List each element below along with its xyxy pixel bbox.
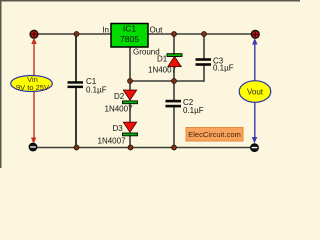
wire top rail right (IC Out to Vout+): [148, 33, 255, 35]
svg-text:D3: D3: [113, 124, 124, 133]
terminal - (bottom right): [251, 144, 259, 152]
svg-text:9V to 25V: 9V to 25V: [16, 83, 49, 92]
diode D3 (cathode down): [98, 122, 138, 145]
wire IC ground pin down to D2: [129, 47, 131, 91]
svg-text:7805: 7805: [120, 34, 139, 44]
wire C1 branch upper: [75, 34, 77, 82]
capacitor C2: [166, 98, 204, 115]
wire D1 to mid node: [173, 67, 175, 82]
wire mid node to C2: [173, 81, 175, 101]
diode D1 (cathode up): [148, 54, 182, 75]
wire C2 to bottom rail: [173, 107, 175, 148]
node C1 bottom: [74, 145, 79, 150]
watermark ElecCircuit.com: [186, 128, 243, 142]
svg-text:D2: D2: [114, 92, 125, 101]
svg-text:1N4007: 1N4007: [98, 137, 127, 146]
terminal + (top right): [251, 30, 259, 38]
Vout blue line with arrows: [252, 38, 258, 144]
terminal - (bottom left): [29, 143, 37, 151]
diode D2 (cathode down): [105, 90, 138, 114]
capacitor C3: [196, 57, 234, 73]
node D3 bottom: [128, 145, 133, 150]
wire D3 to bottom rail: [129, 136, 131, 148]
node C3 top: [202, 32, 207, 37]
svg-text:0.1µF: 0.1µF: [183, 106, 204, 115]
node C1 top: [74, 32, 79, 37]
node Vout label ellipse: [239, 81, 271, 103]
node C2 bottom: [172, 145, 177, 150]
terminal + (top left): [30, 30, 38, 38]
svg-text:0.1µF: 0.1µF: [86, 86, 107, 95]
node ground mid: [128, 79, 133, 84]
svg-text:Out: Out: [150, 26, 164, 35]
node D1 top: [172, 32, 177, 37]
svg-text:D1: D1: [157, 55, 168, 64]
svg-text:1N4007: 1N4007: [105, 105, 134, 114]
wire C3 top branch: [203, 34, 205, 59]
svg-text:IC1: IC1: [123, 24, 137, 34]
op-amp: regulator IC1 7805: [111, 24, 148, 48]
wire C3 bottom to mid wire: [203, 66, 205, 82]
Vin red source line with arrows: [31, 38, 37, 145]
node D1 bottom mid: [172, 79, 177, 84]
wire mid horizontal (ground node): [130, 80, 204, 82]
wire C1 branch lower: [75, 87, 77, 148]
wire between D2 and D3: [129, 104, 131, 123]
svg-text:Vout: Vout: [247, 88, 264, 97]
wire bottom rail: [33, 147, 255, 149]
svg-text:In: In: [102, 26, 109, 35]
wire top rail left (Vin+ to IC In): [34, 33, 111, 35]
wire top rail to D1: [173, 34, 175, 54]
svg-text:1N4007: 1N4007: [148, 66, 177, 75]
svg-text:Ground: Ground: [133, 48, 160, 57]
capacitor C1: [68, 77, 107, 95]
svg-text:0.1µF: 0.1µF: [213, 64, 234, 73]
node Vin label ellipse: [11, 75, 53, 92]
svg-text:ElecCircuit.com: ElecCircuit.com: [188, 130, 241, 139]
